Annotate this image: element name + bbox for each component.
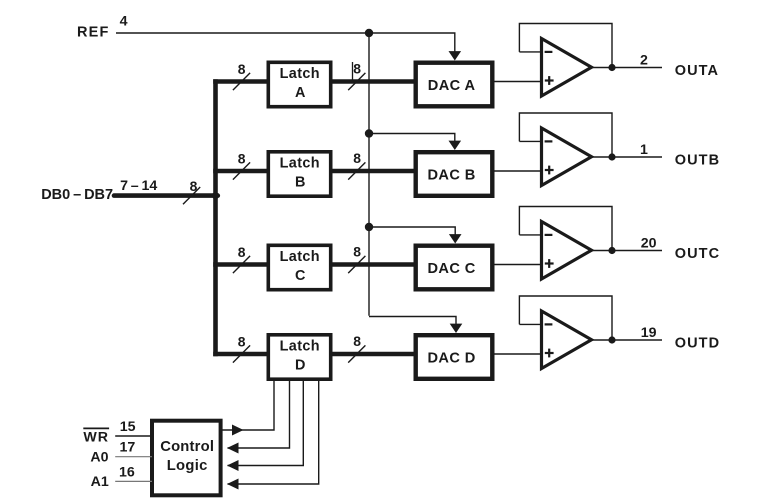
svg-text:Logic: Logic xyxy=(167,458,208,474)
svg-text:REF: REF xyxy=(77,25,110,41)
svg-text:OUTA: OUTA xyxy=(675,63,719,79)
svg-text:8: 8 xyxy=(238,334,246,350)
svg-text:Latch: Latch xyxy=(280,156,320,172)
svg-text:D: D xyxy=(295,358,305,374)
svg-text:8: 8 xyxy=(238,244,246,260)
svg-text:A0: A0 xyxy=(90,450,108,466)
svg-text:DAC D: DAC D xyxy=(427,351,475,367)
svg-text:8: 8 xyxy=(353,61,361,77)
svg-text:OUTB: OUTB xyxy=(675,153,720,169)
svg-text:A: A xyxy=(295,85,306,101)
svg-text:DAC C: DAC C xyxy=(427,261,475,277)
svg-text:DB0 – DB7: DB0 – DB7 xyxy=(41,187,113,203)
svg-text:16: 16 xyxy=(119,464,135,480)
svg-text:8: 8 xyxy=(238,61,246,77)
svg-text:8: 8 xyxy=(238,151,246,167)
svg-text:Latch: Latch xyxy=(280,339,320,355)
svg-text:8: 8 xyxy=(353,333,361,349)
svg-text:19: 19 xyxy=(641,325,657,341)
svg-text:17: 17 xyxy=(120,440,136,456)
svg-text:4: 4 xyxy=(120,14,128,30)
svg-text:OUTC: OUTC xyxy=(675,246,720,262)
svg-text:1: 1 xyxy=(640,142,648,158)
svg-text:8: 8 xyxy=(353,150,361,166)
svg-text:OUTD: OUTD xyxy=(675,336,720,352)
svg-text:DAC A: DAC A xyxy=(428,78,476,94)
svg-text:2: 2 xyxy=(640,52,648,68)
svg-text:DAC B: DAC B xyxy=(427,168,475,184)
svg-text:8: 8 xyxy=(353,244,361,260)
svg-text:15: 15 xyxy=(120,419,136,435)
svg-text:Control: Control xyxy=(160,439,214,455)
svg-text:Latch: Latch xyxy=(280,249,320,265)
svg-text:7 – 14: 7 – 14 xyxy=(120,178,157,194)
svg-text:B: B xyxy=(295,175,305,191)
svg-text:A1: A1 xyxy=(91,474,109,490)
svg-text:C: C xyxy=(295,268,305,284)
svg-text:Latch: Latch xyxy=(280,66,320,82)
svg-text:WR: WR xyxy=(83,429,109,445)
svg-text:20: 20 xyxy=(641,235,657,251)
